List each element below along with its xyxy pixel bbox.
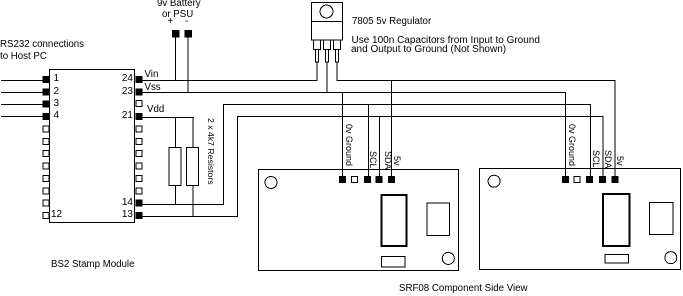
pin number 4 (54, 111, 60, 121)
wire SDA riser (237, 116, 238, 217)
regulator leg 3 wide (334, 40, 341, 50)
wire 5v drop to right SRF08 (615, 80, 616, 179)
wire SCL drop to left SRF08 (368, 104, 369, 179)
regulator body (312, 22, 343, 41)
pin 1 pad (43, 76, 50, 83)
SRF08 module 2 hole bottom-right (665, 252, 677, 264)
label SDA module 1 (383, 151, 392, 170)
SRF08 module 1 pad SDA (376, 176, 383, 183)
regulator leg 2 wide (324, 40, 331, 50)
label 0v Ground module 1 (344, 124, 353, 166)
SRF08 module 2 pad 5v (611, 176, 618, 183)
unconnected pins 5-12 left column (43, 126, 49, 219)
regulator leg 3 narrow (336, 50, 339, 63)
label SRF08 Component Side View (399, 284, 528, 294)
wire SCL riser (223, 104, 224, 205)
pin number 1 (54, 74, 60, 84)
wire Vin rail pin24 to regulator input (142, 80, 317, 81)
SRF08 module 2 board (480, 169, 681, 270)
SRF08 module 2 hole top-left (488, 175, 500, 187)
pin number 24 (109, 74, 133, 84)
pin number 14 (109, 198, 133, 208)
regulator leg 2 narrow (326, 50, 329, 63)
wire SCL rail (223, 104, 591, 105)
label RS232 connections to Host PC (0, 40, 84, 50)
pin number 2 (54, 87, 60, 97)
SRF08 module 1 board (259, 170, 459, 271)
wire SCL drop to right SRF08 (590, 104, 591, 179)
wire R2 bottom lead to SDA (193, 186, 194, 217)
label 5v module 2 (615, 156, 624, 166)
SRF08 module 1 hole bottom-right (442, 252, 454, 264)
wire RS232 to pin 1 (1, 80, 43, 81)
SRF08 module 2 pad no-connect (574, 177, 580, 183)
label 9v Battery or PSU (157, 0, 201, 9)
SRF08 module 2 pad 0v Ground (562, 176, 569, 183)
pin 24 pad (Vin) (136, 76, 143, 83)
unconnected pins 15-20 right column (136, 126, 142, 194)
label BS2 Stamp Module (51, 260, 134, 270)
battery + terminal (172, 30, 180, 38)
wire battery + down to Vin rail (175, 38, 176, 81)
wire SDA rail (237, 116, 603, 117)
pin number 21 (109, 111, 133, 121)
label battery plus (168, 17, 174, 27)
SRF08 module 1 component right (427, 203, 450, 236)
SRF08 module 1 transducer IC (382, 195, 407, 246)
wire pin13 SDA out (142, 216, 238, 217)
SRF08 module 1 component bottom (382, 257, 406, 268)
wire 0v drop to left SRF08 (342, 92, 343, 179)
regulator leg 1 wide (314, 40, 321, 50)
wire SDA drop to left SRF08 (379, 116, 380, 179)
label 5v module 1 (392, 156, 401, 166)
SRF08 module 2 transducer IC (603, 194, 630, 246)
wire Vss 0v rail pin23 to right SRF08 (142, 92, 566, 93)
wire regulator input leg down (317, 62, 318, 81)
SRF08 module 1 hole top-left (265, 177, 277, 189)
wire RS232 to pin 3 (1, 104, 43, 105)
label Vin (145, 70, 159, 80)
SRF08 module 1 pad 0v Ground (339, 176, 346, 183)
SRF08 module 2 pad SCL (586, 176, 593, 183)
pin 2 pad (43, 88, 50, 95)
pin number 13 (109, 210, 133, 220)
pin 14 pad (SCL) (136, 200, 143, 207)
wire regulator output leg down (337, 62, 338, 81)
label 7805 5v Regulator (352, 17, 431, 27)
pin 22 pad unconnected (136, 101, 142, 107)
pin 23 pad (Vss) (136, 88, 143, 95)
wire battery - down to Vss rail (188, 38, 189, 93)
wire R1 bottom lead to SCL (175, 186, 176, 205)
wire RS232 to pin 2 (1, 92, 43, 93)
resistor R1 4k7 body (169, 148, 181, 186)
label Vss (145, 83, 161, 93)
wire regulator ground leg down to Vss rail (327, 62, 328, 93)
wire 5v drop to left SRF08 (391, 80, 392, 179)
SRF08 module 1 pad SCL (364, 176, 371, 183)
SRF08 module 1 pad 5v (388, 176, 395, 183)
SRF08 module 1 pad no-connect (352, 177, 358, 183)
pin 4 pad (43, 113, 50, 120)
label SDA module 2 (603, 150, 612, 169)
label battery minus (185, 17, 188, 27)
wire 0v drop to right SRF08 (565, 92, 566, 179)
regulator U1 7805 tab (312, 3, 343, 22)
wire pin14 SCL out (142, 204, 224, 205)
pin number 23 (109, 87, 133, 97)
SRF08 module 2 component bottom (605, 255, 628, 264)
label 0v Ground module 2 (567, 124, 576, 166)
pin 21 pad (Vdd) (136, 113, 143, 120)
wire Vdd stub pin21 to resistors (142, 117, 194, 118)
wire RS232 to pin 4 (1, 116, 43, 117)
pin number 12 (51, 210, 62, 220)
SRF08 module 2 component right (650, 203, 673, 235)
pin 13 pad (SDA) (136, 212, 143, 219)
note capacitors (352, 36, 540, 46)
pin number 3 (54, 99, 60, 109)
label 2 x 4k7 Resistors (206, 118, 215, 185)
label Vdd (147, 105, 164, 115)
resistor R2 4k7 body (187, 148, 199, 186)
label SCL module 1 (368, 151, 377, 169)
regulator leg 1 narrow (316, 50, 319, 63)
wire R1 top lead (175, 117, 176, 148)
wire R2 top lead (193, 117, 194, 148)
wire 5v rail regulator output to right SRF08 (337, 80, 616, 81)
BS2 stamp module body (50, 70, 135, 223)
label SCL module 2 (591, 150, 600, 168)
pin 3 pad (43, 101, 50, 108)
SRF08 module 2 pad SDA (599, 176, 606, 183)
wire SDA drop to right SRF08 (603, 116, 604, 179)
regulator mounting hole (320, 5, 333, 18)
battery - terminal (185, 30, 193, 38)
